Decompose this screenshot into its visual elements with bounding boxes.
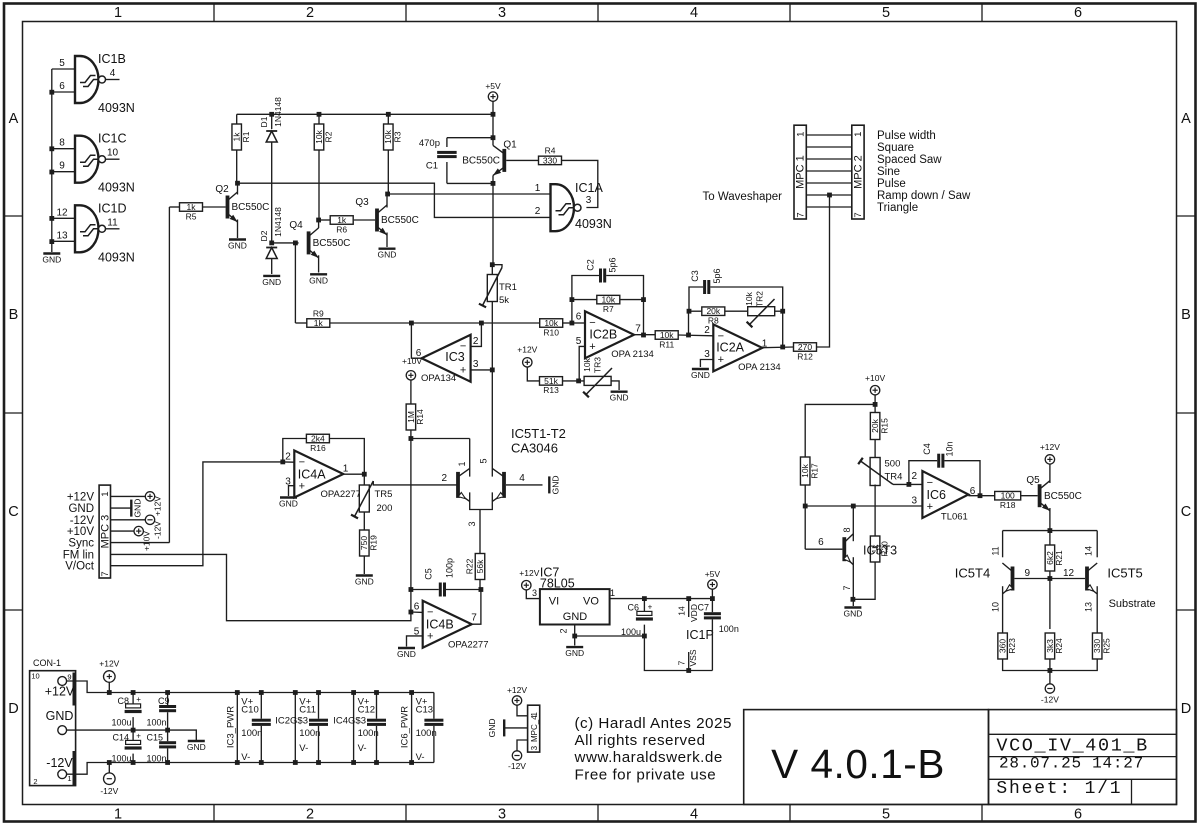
svg-text:+12V: +12V [517, 345, 537, 355]
svg-text:IC2G$3: IC2G$3 [275, 716, 308, 727]
svg-text:R15: R15 [879, 418, 889, 434]
svg-text:V/Oct: V/Oct [65, 561, 95, 573]
svg-text:78L05: 78L05 [540, 577, 575, 591]
svg-text:2: 2 [33, 777, 37, 786]
svg-text:OPA 2134: OPA 2134 [611, 349, 654, 360]
svg-text:IC5T4: IC5T4 [955, 566, 990, 581]
svg-text:BC550C: BC550C [313, 238, 351, 249]
svg-text:C12: C12 [358, 705, 375, 716]
svg-text:R14: R14 [415, 409, 425, 425]
svg-text:2: 2 [911, 471, 917, 482]
svg-text:+5V: +5V [485, 81, 501, 91]
svg-text:+: + [136, 732, 141, 741]
svg-text:4: 4 [519, 473, 525, 484]
svg-text:-12V: -12V [508, 761, 526, 771]
svg-text:4093N: 4093N [98, 250, 135, 264]
svg-text:+12V: +12V [67, 491, 95, 503]
svg-text:GND: GND [68, 503, 94, 515]
svg-text:R4: R4 [545, 146, 556, 156]
svg-text:28.07.25 14:27: 28.07.25 14:27 [999, 755, 1144, 773]
svg-text:IC4G$3: IC4G$3 [333, 716, 366, 727]
svg-text:R8: R8 [708, 315, 719, 325]
svg-text:TR3: TR3 [593, 357, 603, 373]
svg-text:C11: C11 [299, 705, 316, 716]
svg-text:-12V: -12V [153, 521, 163, 539]
svg-text:R21: R21 [1054, 550, 1064, 566]
svg-text:Q3: Q3 [355, 197, 369, 208]
svg-text:13: 13 [56, 230, 68, 241]
svg-text:1: 1 [457, 461, 467, 466]
svg-text:C4: C4 [922, 443, 932, 455]
svg-text:5: 5 [59, 58, 65, 69]
svg-text:A: A [9, 111, 19, 127]
svg-text:5p6: 5p6 [608, 257, 618, 272]
svg-text:7: 7 [471, 613, 477, 624]
svg-text:5k: 5k [499, 295, 509, 306]
svg-text:IC1A: IC1A [575, 181, 603, 195]
svg-text:R7: R7 [603, 304, 614, 314]
svg-text:6: 6 [818, 537, 824, 548]
svg-text:R3: R3 [393, 131, 403, 142]
svg-text:9: 9 [67, 672, 71, 681]
svg-text:GND: GND [132, 499, 142, 518]
svg-text:100n: 100n [147, 718, 167, 728]
svg-text:GND: GND [487, 718, 497, 737]
svg-text:GND: GND [355, 577, 374, 587]
svg-text:Triangle: Triangle [877, 202, 918, 214]
svg-text:BC550C: BC550C [462, 156, 500, 167]
svg-text:100n: 100n [147, 754, 167, 764]
svg-text:5: 5 [576, 336, 582, 347]
svg-text:Q2: Q2 [215, 184, 229, 195]
svg-text:V-: V- [241, 752, 250, 763]
svg-text:OPA2277: OPA2277 [448, 640, 489, 651]
svg-text:100u: 100u [111, 754, 131, 764]
svg-text:10: 10 [107, 148, 119, 159]
svg-text:Substrate: Substrate [1109, 598, 1156, 610]
svg-text:3: 3 [498, 5, 506, 21]
svg-text:IC3: IC3 [445, 350, 465, 364]
svg-text:4: 4 [690, 807, 698, 823]
svg-text:100n: 100n [358, 728, 379, 739]
svg-text:V-: V- [416, 752, 425, 763]
svg-text:CON-1: CON-1 [33, 658, 61, 668]
svg-text:100n: 100n [719, 624, 739, 634]
svg-text:C8: C8 [117, 696, 129, 706]
svg-text:10n: 10n [945, 441, 955, 456]
svg-text:C5: C5 [424, 568, 434, 580]
svg-text:1: 1 [853, 132, 864, 137]
svg-text:(c) Haradl Antes 2025: (c) Haradl Antes 2025 [575, 715, 732, 732]
svg-text:+: + [718, 354, 724, 366]
svg-text:7: 7 [100, 571, 111, 576]
svg-text:+: + [589, 341, 595, 353]
svg-text:-12V: -12V [100, 786, 118, 796]
svg-text:MPC 3: MPC 3 [99, 515, 111, 549]
svg-text:BC550C: BC550C [232, 202, 270, 213]
svg-text:11: 11 [991, 546, 1001, 555]
svg-text:BC550C: BC550C [1044, 491, 1082, 502]
svg-text:Pulse width: Pulse width [877, 130, 936, 142]
svg-text:4093N: 4093N [98, 101, 135, 115]
svg-text:4093N: 4093N [575, 217, 612, 231]
svg-text:TR4: TR4 [885, 472, 903, 483]
svg-text:GND: GND [279, 499, 298, 509]
svg-text:5p6: 5p6 [712, 268, 722, 283]
svg-text:1k: 1k [314, 318, 324, 328]
svg-text:7: 7 [853, 212, 864, 217]
svg-text:C: C [1181, 504, 1191, 520]
svg-text:Free for private use: Free for private use [575, 766, 717, 783]
svg-text:12: 12 [1063, 568, 1075, 579]
svg-text:IC1P: IC1P [686, 628, 714, 642]
svg-text:+: + [136, 695, 141, 704]
svg-text:2: 2 [306, 5, 314, 21]
svg-text:R16: R16 [310, 443, 326, 453]
svg-text:IC5T5: IC5T5 [1107, 566, 1142, 581]
svg-text:IC5T3: IC5T3 [863, 544, 897, 558]
svg-text:C13: C13 [416, 705, 433, 716]
svg-text:9: 9 [59, 161, 65, 172]
svg-text:Sine: Sine [877, 166, 900, 178]
svg-text:IC6: IC6 [927, 488, 947, 502]
svg-text:4093N: 4093N [98, 181, 135, 195]
svg-text:Sheet: 1/1: Sheet: 1/1 [996, 779, 1122, 799]
svg-text:R13: R13 [543, 385, 559, 395]
svg-text:GND: GND [262, 277, 281, 287]
svg-text:+12V: +12V [45, 685, 75, 699]
svg-text:3: 3 [498, 807, 506, 823]
svg-text:C2: C2 [586, 259, 596, 271]
svg-text:MPC 2: MPC 2 [852, 155, 864, 189]
svg-text:IC4A: IC4A [298, 468, 326, 482]
svg-text:330: 330 [543, 155, 557, 165]
svg-text:4: 4 [690, 5, 698, 21]
svg-text:R18: R18 [1000, 500, 1016, 510]
svg-text:TR5: TR5 [375, 489, 393, 500]
svg-text:C1: C1 [426, 161, 438, 172]
svg-text:3: 3 [586, 195, 592, 206]
svg-text:-12V: -12V [70, 515, 95, 527]
svg-text:Ramp down / Saw: Ramp down / Saw [877, 190, 971, 202]
svg-text:6: 6 [1074, 807, 1082, 823]
svg-text:+: + [927, 501, 933, 513]
svg-text:1: 1 [67, 774, 71, 783]
svg-text:IC1C: IC1C [98, 132, 126, 146]
svg-text:R19: R19 [369, 535, 379, 551]
svg-text:VSS: VSS [688, 649, 698, 666]
svg-text:Pulse: Pulse [877, 178, 906, 190]
svg-text:GND: GND [42, 255, 61, 265]
svg-text:2: 2 [285, 452, 291, 463]
svg-text:R6: R6 [336, 224, 347, 234]
svg-text:6: 6 [59, 81, 65, 92]
svg-text:6: 6 [414, 602, 420, 613]
svg-text:100u: 100u [111, 718, 131, 728]
svg-text:GND: GND [691, 370, 710, 380]
svg-text:+: + [427, 630, 433, 642]
svg-text:3: 3 [911, 496, 917, 507]
svg-text:D1: D1 [259, 116, 269, 127]
svg-text:IC2B: IC2B [589, 328, 617, 342]
svg-text:5: 5 [882, 807, 890, 823]
svg-text:R23: R23 [1007, 638, 1017, 654]
svg-text:13: 13 [1084, 602, 1094, 612]
svg-text:A: A [1181, 111, 1191, 127]
svg-text:+: + [460, 364, 466, 376]
svg-text:IC1B: IC1B [98, 52, 126, 66]
svg-text:www.haraldswerk.de: www.haraldswerk.de [574, 749, 723, 766]
svg-text:12: 12 [56, 207, 68, 218]
svg-text:GND: GND [378, 250, 397, 260]
svg-text:2: 2 [535, 206, 541, 217]
svg-text:VI: VI [549, 596, 559, 608]
svg-text:10k: 10k [744, 291, 754, 305]
svg-text:1N4148: 1N4148 [273, 207, 283, 237]
svg-text:1N4148: 1N4148 [273, 97, 283, 127]
svg-text:VCO_IV_401_B: VCO_IV_401_B [996, 736, 1148, 757]
svg-text:10: 10 [991, 602, 1001, 612]
svg-text:-12V: -12V [46, 756, 73, 770]
svg-text:6: 6 [576, 312, 582, 323]
svg-text:2: 2 [306, 807, 314, 823]
svg-text:R5: R5 [186, 211, 197, 221]
svg-text:C7: C7 [697, 603, 709, 613]
svg-text:R10: R10 [543, 327, 559, 337]
svg-text:FM lin: FM lin [63, 549, 94, 561]
svg-text:5: 5 [882, 5, 890, 21]
svg-text:+10V: +10V [142, 531, 152, 551]
svg-text:100n: 100n [299, 728, 320, 739]
svg-text:3: 3 [532, 588, 537, 598]
svg-text:2: 2 [441, 473, 447, 484]
svg-text:10k: 10k [582, 357, 592, 371]
svg-text:7: 7 [635, 324, 641, 335]
svg-text:1: 1 [343, 464, 349, 475]
svg-text:C: C [8, 504, 18, 520]
svg-text:+10V: +10V [67, 526, 95, 538]
svg-text:3: 3 [467, 521, 477, 526]
svg-text:GND: GND [228, 241, 247, 251]
svg-text:Q4: Q4 [289, 220, 303, 231]
svg-text:GND: GND [397, 649, 416, 659]
svg-text:C14: C14 [112, 733, 129, 743]
svg-text:TL061: TL061 [941, 512, 968, 523]
svg-text:R17: R17 [809, 463, 819, 479]
svg-text:BC550C: BC550C [381, 215, 419, 226]
svg-text:11: 11 [107, 217, 118, 228]
svg-text:GND: GND [187, 742, 206, 752]
svg-text:IC6_PWR: IC6_PWR [400, 706, 411, 748]
svg-text:R12: R12 [797, 351, 813, 361]
svg-text:470p: 470p [419, 138, 440, 149]
svg-text:MPC 1: MPC 1 [795, 155, 807, 189]
svg-text:-12V: -12V [1041, 695, 1059, 705]
svg-text:+10V: +10V [865, 373, 885, 383]
svg-text:200: 200 [377, 503, 393, 514]
svg-text:14: 14 [677, 606, 687, 616]
svg-text:1: 1 [610, 588, 615, 598]
svg-text:D: D [8, 701, 18, 717]
svg-text:R1: R1 [241, 131, 251, 142]
svg-text:+12V: +12V [507, 685, 527, 695]
svg-text:TR1: TR1 [499, 282, 517, 293]
svg-text:GND: GND [843, 609, 862, 619]
svg-text:OPA 2134: OPA 2134 [738, 362, 781, 373]
svg-text:GND: GND [550, 475, 560, 494]
svg-text:GND: GND [563, 611, 588, 623]
svg-text:R24: R24 [1054, 638, 1064, 654]
svg-text:3: 3 [704, 349, 710, 360]
svg-text:R11: R11 [659, 339, 674, 349]
svg-text:+12V: +12V [1040, 442, 1060, 452]
svg-text:+10V: +10V [402, 356, 422, 366]
svg-text:TR2: TR2 [755, 291, 765, 307]
svg-text:R2: R2 [323, 131, 333, 142]
svg-text:500: 500 [885, 459, 901, 470]
svg-text:5: 5 [479, 458, 489, 463]
svg-text:7: 7 [795, 212, 806, 217]
svg-text:3: 3 [530, 745, 539, 750]
svg-text:1: 1 [114, 807, 122, 823]
svg-text:IC3_PWR: IC3_PWR [225, 706, 236, 748]
svg-text:GND: GND [46, 709, 74, 723]
svg-text:GND: GND [565, 648, 584, 658]
svg-text:B: B [9, 307, 19, 323]
svg-text:+: + [648, 603, 653, 612]
svg-text:Spaced Saw: Spaced Saw [877, 154, 942, 166]
svg-text:OPA2277: OPA2277 [321, 489, 362, 500]
svg-text:IC1D: IC1D [98, 201, 126, 215]
svg-text:56k: 56k [475, 559, 485, 573]
svg-text:OPA134: OPA134 [421, 373, 456, 384]
svg-text:4: 4 [110, 68, 116, 79]
svg-text:100p: 100p [445, 558, 455, 578]
svg-text:To Waveshaper: To Waveshaper [703, 191, 783, 203]
svg-text:IC5T1-T2: IC5T1-T2 [511, 426, 566, 441]
svg-text:Square: Square [877, 142, 914, 154]
svg-text:8: 8 [842, 527, 852, 532]
svg-text:R9: R9 [313, 308, 324, 318]
svg-text:2: 2 [559, 628, 569, 633]
svg-text:V-: V- [358, 743, 367, 754]
svg-text:All rights reserved: All rights reserved [575, 732, 706, 749]
svg-text:D2: D2 [259, 230, 269, 241]
svg-text:8: 8 [59, 138, 65, 149]
svg-text:100n: 100n [241, 728, 262, 739]
svg-text:+5V: +5V [705, 569, 721, 579]
svg-text:14: 14 [1084, 546, 1094, 556]
svg-text:C10: C10 [241, 705, 258, 716]
svg-text:7: 7 [677, 660, 687, 665]
svg-text:R22: R22 [464, 558, 474, 574]
svg-text:C3: C3 [690, 270, 700, 282]
svg-text:C15: C15 [147, 733, 164, 743]
svg-text:MPC_4: MPC_4 [530, 715, 539, 742]
svg-text:2: 2 [473, 336, 479, 347]
svg-text:VO: VO [583, 596, 599, 608]
svg-text:Q1: Q1 [503, 140, 517, 151]
svg-text:V-: V- [299, 743, 308, 754]
svg-text:C6: C6 [627, 603, 639, 613]
svg-text:Sync: Sync [68, 538, 94, 550]
svg-text:IC2A: IC2A [716, 341, 744, 355]
svg-text:GND: GND [309, 275, 328, 285]
svg-text:2: 2 [704, 325, 710, 336]
svg-text:1: 1 [100, 491, 111, 496]
svg-text:C9: C9 [158, 696, 170, 706]
svg-text:6: 6 [1074, 5, 1082, 21]
svg-text:IC4B: IC4B [426, 618, 454, 632]
svg-text:10: 10 [31, 671, 39, 680]
svg-text:R25: R25 [1101, 638, 1111, 654]
svg-text:1: 1 [535, 183, 541, 194]
svg-text:GND: GND [610, 393, 629, 403]
svg-text:9: 9 [1025, 568, 1031, 579]
svg-text:7: 7 [842, 585, 852, 590]
svg-text:D: D [1181, 701, 1191, 717]
svg-text:B: B [1181, 307, 1191, 323]
svg-text:CA3046: CA3046 [511, 441, 558, 456]
svg-text:+12V: +12V [99, 659, 119, 669]
svg-text:1: 1 [795, 132, 806, 137]
svg-text:+12V: +12V [153, 496, 163, 516]
svg-text:1: 1 [114, 5, 122, 21]
svg-text:+: + [299, 480, 305, 492]
svg-text:3: 3 [473, 359, 479, 370]
svg-text:V 4.0.1-B: V 4.0.1-B [771, 741, 945, 787]
svg-text:+12V: +12V [519, 568, 539, 578]
